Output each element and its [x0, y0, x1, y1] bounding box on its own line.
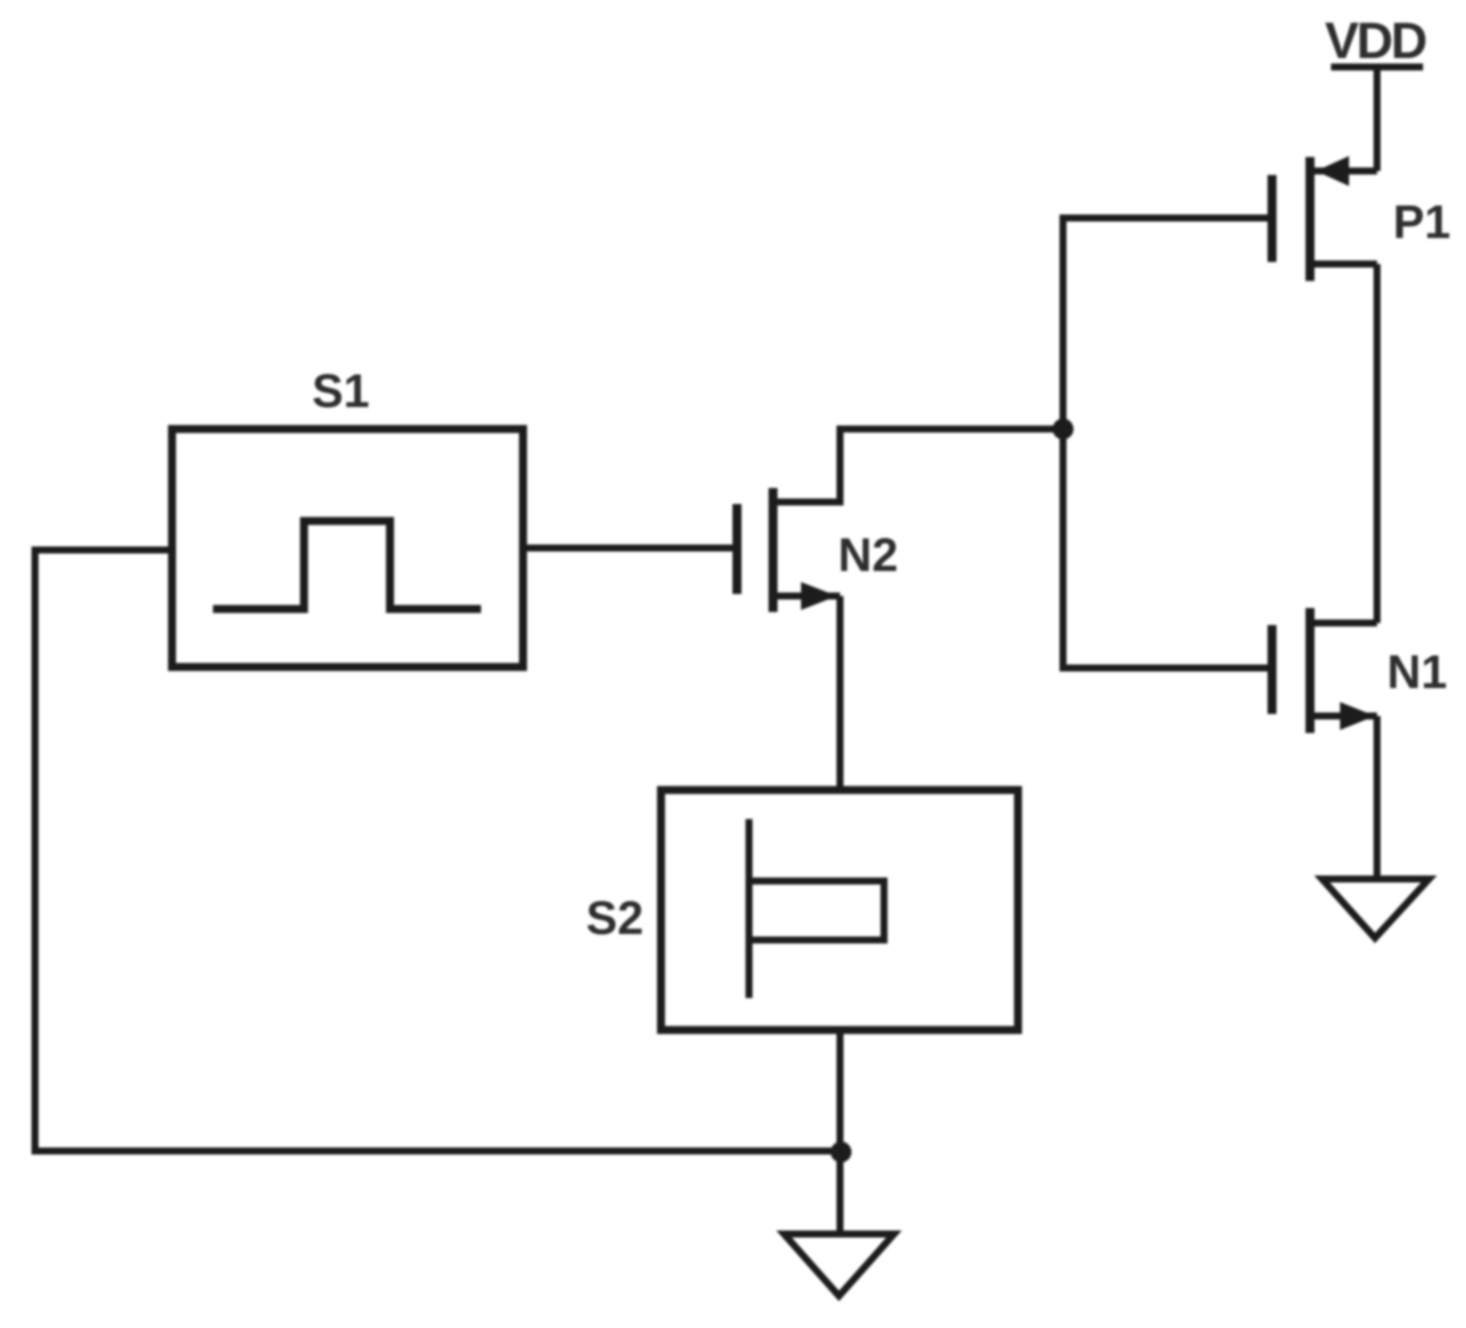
wire N2 source to S2 — [837, 596, 844, 790]
svg-text:S2: S2 — [586, 891, 644, 944]
wire N2 drain to output node — [776, 429, 1063, 502]
wire S2 to ground — [837, 1030, 844, 1234]
svg-text:P1: P1 — [1393, 195, 1451, 248]
transistor N2 — [737, 488, 898, 612]
source S2 (step source box) — [586, 790, 1018, 1030]
wire N2 gate to S1 — [523, 545, 733, 552]
svg-text:S1: S1 — [312, 364, 370, 417]
power symbol VDD — [1325, 12, 1426, 69]
wire gate rail: P1 gate to N1 gate — [1063, 218, 1268, 668]
wire VDD to P1 source — [1374, 67, 1381, 171]
wire S1 to bottom rail — [35, 550, 840, 1151]
wire P1 drain to N1 drain — [1374, 264, 1381, 623]
transistor N1 — [1272, 608, 1447, 733]
svg-text:VDD: VDD — [1325, 12, 1426, 69]
node output junction — [1053, 419, 1074, 440]
source S1 (pulse source box) — [172, 364, 523, 667]
ground (bottom) — [784, 1234, 894, 1296]
node bottom junction — [831, 1142, 852, 1163]
svg-text:N2: N2 — [838, 528, 898, 581]
transistor P1 — [1272, 156, 1451, 281]
ground (under N1) — [1322, 879, 1429, 938]
svg-text:N1: N1 — [1387, 645, 1447, 698]
wire N1 source to ground — [1374, 716, 1381, 879]
